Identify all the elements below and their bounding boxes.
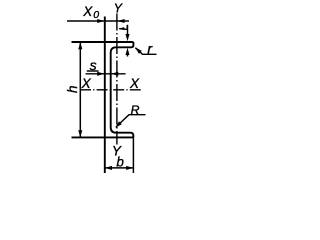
node r leader — [135, 48, 156, 55]
svg-text:R: R — [131, 103, 140, 117]
svg-text:X: X — [82, 4, 93, 19]
node t leader arrow — [119, 25, 127, 29]
node h dimension line — [79, 42, 81, 137]
node X axis (horizontal dash-dot) — [80, 89, 142, 91]
svg-text:0: 0 — [93, 9, 99, 21]
node Y axis (vertical dash-dot) — [116, 14, 118, 145]
wire web outer face + extension line (left vertical) — [104, 17, 106, 174]
node b dimension line — [105, 167, 134, 169]
node t dimension (flange thickness arrows) — [127, 25, 129, 37]
svg-text:h: h — [65, 85, 80, 93]
node R leader — [116, 115, 146, 127]
wire bottom flange outer edge + h bottom extension — [72, 136, 134, 138]
wire top flange outer edge + h top extension — [72, 41, 134, 43]
node X0 dimension line — [67, 20, 129, 22]
svg-text:X: X — [81, 76, 92, 91]
svg-text:X: X — [129, 76, 140, 91]
node s dimension (web thickness arrows) — [86, 73, 126, 75]
channel inner contour (tips, radii, web inner face) — [111, 42, 134, 137]
wire s underline — [87, 70, 99, 72]
wire b right extension line — [132, 137, 134, 173]
